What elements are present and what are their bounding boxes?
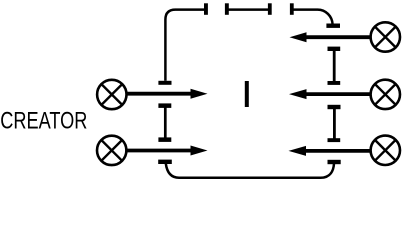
arrow A4 (L4 to I) xyxy=(289,89,372,99)
node CREATOR label xyxy=(0,107,87,134)
T-bar on arrow A3 (top line end) xyxy=(326,24,340,28)
wire bottom inhibitory line (A2 to A5) xyxy=(166,164,334,178)
break tick 1 (top line) xyxy=(204,3,208,15)
lamp L2 (left bottom) xyxy=(97,136,126,165)
T-bar on arrow A5 (bottom line end) xyxy=(328,160,341,164)
break tick 2 (top line) xyxy=(225,3,229,15)
arrow A1 (L1 to I) xyxy=(126,89,208,99)
mutual inhibitor I-beam right upper (between A3 and A4) xyxy=(328,47,341,85)
lamp L4 (right middle) xyxy=(371,80,400,109)
mutual inhibitor I-beam right lower (between A4 and A5) xyxy=(328,105,341,142)
node I (central bar) xyxy=(245,81,249,107)
svg-text:CREATOR: CREATOR xyxy=(0,107,87,134)
arrow A3 (L3 to I) xyxy=(290,32,372,42)
lamp L3 (right top) xyxy=(371,22,400,51)
arrow A5 (L5 to I) xyxy=(289,146,372,156)
break tick 4 (top line) xyxy=(290,3,294,15)
wire top inhibitory line (A1 to A3) xyxy=(165,10,332,81)
T-bar on arrow A1 (top line end) xyxy=(158,81,171,85)
T-bar on arrow A2 (bottom line end) xyxy=(158,160,172,164)
lamp L1 (left middle) xyxy=(97,80,126,109)
mutual inhibitor I-beam left (between A1 and A2) xyxy=(158,103,171,141)
break tick 3 (top line) xyxy=(268,3,272,15)
arrow A2 (L2 to I) xyxy=(125,146,207,156)
lamp L5 (right bottom) xyxy=(371,136,400,165)
